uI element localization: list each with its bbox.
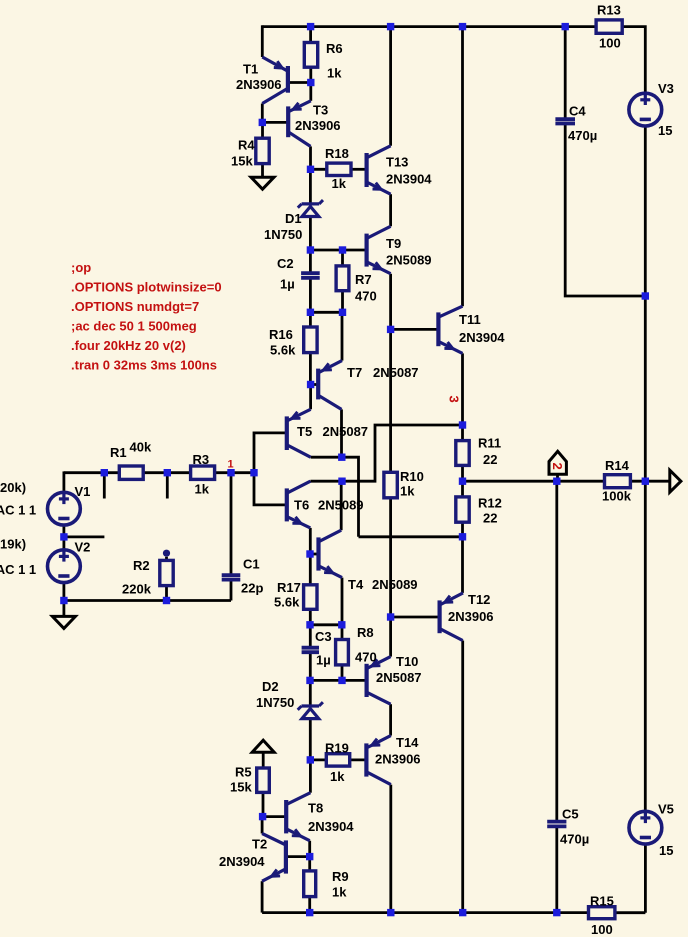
svg-text:1k: 1k [195,482,210,497]
label T7 val [373,365,419,380]
transistor T12 [440,593,463,641]
wire T5 emitter feed [309,385,312,410]
junction node R8 top [338,621,345,628]
wire R10 bottom col [389,498,392,617]
wire C4 bottom [565,124,645,296]
wire T4 base stub [310,553,318,556]
label R3 ref [193,452,210,467]
svg-text:470: 470 [355,289,377,304]
junction node R2 bottom [163,597,170,604]
svg-text:C2: C2 [277,256,294,271]
junction node top rail / T13 [387,23,394,30]
svg-text:T6: T6 [294,498,309,513]
svg-text:1µ: 1µ [280,277,295,292]
junction node rail T14 [387,909,394,916]
junction node R1 right [164,469,171,476]
wire T2 coll up [261,817,264,834]
node 2 flag [549,451,566,474]
label R18 val [332,176,347,191]
junction node T7 base [307,381,314,388]
svg-text:2N3904: 2N3904 [459,330,505,345]
label T6 ref [294,498,309,513]
transistor T3 [288,101,311,147]
wire row R17-R8 top [310,623,342,626]
svg-text:2N3906: 2N3906 [375,752,421,767]
resistor R16 [304,327,317,353]
svg-text:100k: 100k [602,489,632,504]
label R6 val [327,66,342,81]
wire C4 top col [564,27,567,119]
wire bottom-left row [64,599,231,602]
label R4 val [231,154,253,169]
voltage source V2 [48,549,81,583]
svg-text:22p: 22p [241,581,263,596]
wire T10 emit link [389,617,392,657]
label directive tran [71,358,217,373]
resistor R17 [304,585,317,610]
label R1 ref [110,445,127,460]
label R13 ref [597,3,621,18]
wire R16 top [309,312,312,327]
svg-text:5.6k: 5.6k [274,595,300,610]
label R10 ref [400,469,424,484]
wire T3 collector down [309,146,312,169]
junction node T11 base [387,326,394,333]
wire T6 emit down [309,528,312,554]
wire input row R1-R3 [143,471,190,474]
label T5 ref [297,424,312,439]
wire R4 bottom [261,164,264,178]
label R3 val [195,482,210,497]
capacitor C2 [301,273,320,278]
junction node T8 emit-T2 base [306,853,313,860]
transistor T1 [262,57,288,104]
wire T6 base [254,473,287,505]
wire R12 bottom link [461,522,464,593]
wire R2 bottom [165,586,168,601]
wire node2 stub [556,474,559,481]
label T13 ref [386,155,408,170]
label R7 val [355,289,377,304]
wire D1 bottom [309,217,312,250]
wire T6 coll row [310,480,342,483]
svg-text:T5: T5 [297,424,312,439]
svg-text:R16: R16 [269,327,293,342]
junction node V1-V2 [60,533,67,540]
wire T12 base row [391,616,440,619]
svg-text:5.6k: 5.6k [270,343,296,358]
label V5 val [659,843,673,858]
junction node R1 left [101,469,108,476]
wire R19 right [350,759,367,762]
label C1 ref [243,557,260,572]
wire T7 emitter feed [341,312,344,360]
junction node T1 base-R6 [307,79,314,86]
wire T1 emitter feed [261,25,264,57]
transistor T6 [287,481,311,528]
label directive ac [71,319,197,334]
label V2 ref [75,540,91,555]
resistor R18 [327,163,351,175]
svg-text:1k: 1k [327,66,342,81]
label T10 val [376,670,422,685]
wire R16 bottom [309,353,312,385]
transistor T2 [262,834,286,882]
wire T10 coll link [389,704,392,735]
label R6 ref [326,41,343,56]
wire row C2-R7 [310,311,342,314]
svg-text:22: 22 [483,452,497,467]
label R9 ref [332,869,349,884]
label V3 ref [658,81,674,96]
wire R18 right [351,168,367,171]
wire bottom rail [262,911,588,914]
voltage source V1 [48,491,81,525]
wire T1 collector down [261,104,264,123]
wire V2 stub right [64,536,105,539]
label V3 val [658,123,672,138]
label C5 val [560,832,589,847]
wire D2 bottom [309,718,312,760]
label directive four [71,338,186,353]
label D1 val [264,227,302,242]
wire right col top [461,27,464,307]
wire V3-V5 col [644,481,647,811]
junction node R12 bottom [459,533,466,540]
label R19 ref [325,741,349,756]
svg-text:1k: 1k [332,176,347,191]
wire input row left [64,471,119,474]
svg-text:2: 2 [550,463,565,470]
svg-text:100: 100 [599,36,621,51]
svg-text:R3: R3 [193,452,210,467]
R2 open terminal dot [163,550,170,557]
capacitor C1 [222,575,241,579]
junction node 2 junction [553,478,560,485]
svg-text:T11: T11 [459,312,481,327]
wire T13 coll rail [389,27,392,146]
junction node T4 base [306,550,313,557]
wire T4 emit down [341,578,344,625]
label C5 ref [562,807,579,822]
label T14 val [375,752,421,767]
label R11 ref [478,436,501,451]
svg-text:.OPTIONS plotwinsize=0: .OPTIONS plotwinsize=0 [71,280,222,295]
label T2 val [219,854,265,869]
wire T7 collector down [340,409,343,457]
wire V1-V2 [63,525,66,550]
label R16 ref [269,327,293,342]
resistor R9 [304,871,316,897]
wire input row R3 to node1 [215,471,254,474]
svg-text:;ac dec 50 1 500meg: ;ac dec 50 1 500meg [71,319,197,334]
svg-text:1k: 1k [332,885,347,900]
resistor R7 [336,266,349,291]
wire T2 base row [286,855,310,858]
svg-text:T7: T7 [347,365,362,380]
ground below R4 [251,177,274,189]
svg-text:R9: R9 [332,869,349,884]
voltage source V5 [629,810,662,844]
junction node R8 bottom [338,677,345,684]
label T1 val [236,77,282,92]
label T4 val [372,577,418,592]
label V1 ref [75,484,91,499]
label T6 val [318,498,364,513]
svg-text:470µ: 470µ [560,832,589,847]
label R15 val [591,922,613,937]
label T9 val [386,253,432,268]
svg-text:D1: D1 [285,211,302,226]
transistor T8 [286,793,310,841]
resistor R15 [589,907,615,919]
svg-text:T14: T14 [396,735,419,750]
junction node bottom-left [60,597,67,604]
wire T12 coll down [461,641,464,913]
label R18 ref [325,146,349,161]
wire R8 bottom stub [341,665,344,681]
label T3 ref [313,103,328,118]
wire T11 emit down [461,353,464,440]
junction node R5-T8 base [259,813,266,820]
junction node T6 coll [338,478,345,485]
junction node D1-C2 [307,246,314,253]
label R5 val [230,780,252,795]
wire R2 stub [165,557,168,561]
wire R7 top stub [341,250,344,266]
label R16 val [270,343,296,358]
label C2 val [280,277,295,292]
label R17 ref [277,580,301,595]
svg-text:R8: R8 [357,625,374,640]
svg-text:2N5089: 2N5089 [372,577,418,592]
svg-text:2N3904: 2N3904 [308,819,354,834]
svg-text:2N5089: 2N5089 [386,253,432,268]
svg-text:R10: R10 [400,469,424,484]
wire T8 coll up [309,760,312,793]
wire C2 bottom [309,279,312,312]
transistor T9 [367,226,391,273]
svg-text:R5: R5 [235,765,252,780]
output arrow [670,470,681,492]
label V5 ref [658,802,674,817]
svg-text:T3: T3 [313,103,328,118]
svg-text:V2: V2 [75,540,91,555]
svg-text:3: 3 [447,396,462,403]
wire T11 base row [391,328,439,331]
wire T1 base to R6 node [288,81,311,84]
wire V1 top feed [63,471,66,492]
diode D2 [298,702,323,718]
transistor T11 [438,306,462,353]
wire V2 bottom [63,582,66,600]
wire V5 bottom [644,844,647,913]
svg-text:C4: C4 [569,104,586,119]
label C2 ref [277,256,294,271]
wire R17 top [309,554,312,585]
junction node top rail / R6 [307,23,314,30]
label T1 ref [243,62,258,77]
resistor R14 [605,475,631,488]
label V2 note2 [0,562,36,577]
svg-text:T8: T8 [308,801,323,816]
junction node T7 coll row [338,454,345,461]
wire row T5 coll [311,457,359,537]
wire C1 top [230,473,233,575]
label T5 val [323,424,369,439]
svg-text:15: 15 [658,123,672,138]
label R9 val [332,885,347,900]
resistor R2 [160,560,173,585]
wire R8 top stub [341,625,344,640]
wire T14 emit down [389,785,392,913]
junction node output [459,478,466,485]
svg-text:R15: R15 [590,894,614,909]
resistor R6 [304,43,317,68]
wire R5 bottom [262,792,265,816]
label T3 val [295,118,341,133]
label T12 val [448,609,494,624]
ground above R5 (up) [252,740,274,752]
wire T2 emit down [261,881,264,912]
svg-text:.OPTIONS numdgt=7: .OPTIONS numdgt=7 [71,299,199,314]
transistor T5 [287,409,311,457]
label T11 ref [459,312,481,327]
wire T8 base [263,815,286,818]
svg-text:2N3904: 2N3904 [219,854,265,869]
resistor R1 [119,466,143,479]
wire R14 right [630,480,669,483]
svg-text:T10: T10 [396,654,418,669]
wire top rail [262,25,596,28]
label T13 val [386,172,432,187]
wire output row [463,480,605,483]
svg-text:R19: R19 [325,741,349,756]
label T4 ref [348,577,364,592]
svg-text:2N3906: 2N3906 [295,118,341,133]
svg-text:T12: T12 [468,592,490,607]
junction node input 1 [250,469,257,476]
label D1 ref [285,211,302,226]
label R4 ref [238,138,255,153]
svg-text:R7: R7 [355,272,372,287]
wire T3 emitter stub [309,83,312,101]
svg-text:R18: R18 [325,146,349,161]
junction node R17-C3 [306,621,313,628]
svg-text:R2: R2 [133,558,150,573]
label directive options2 [71,299,199,314]
label C3 ref [315,629,332,644]
resistor R3 [191,466,215,479]
wire T7 base stub [311,383,318,386]
svg-text:AC 1 1: AC 1 1 [0,503,36,518]
wire T5 base [254,433,287,473]
label V2 note1 [0,537,26,552]
svg-text:220k: 220k [122,582,152,597]
svg-text:;op: ;op [71,260,91,275]
svg-text:R4: R4 [238,138,255,153]
label T7 ref [347,365,362,380]
label T10 ref [396,654,418,669]
svg-text:1k: 1k [330,769,345,784]
label node label 2 [550,463,565,470]
svg-text:40k: 40k [130,440,152,455]
label V1 note1 [0,480,26,495]
junction node R7 bottom [339,309,346,316]
transistor T4 [319,530,343,577]
resistor R4 [256,138,269,163]
junction node T3 base-R4 [259,119,266,126]
wire D2 top [309,680,312,704]
svg-text:15: 15 [659,843,673,858]
junction node C1 top [227,469,234,476]
svg-text:2N3906: 2N3906 [448,609,494,624]
wire C5 bottom [555,827,558,912]
wire stub A [103,476,106,499]
label R13 val [599,36,621,51]
svg-text:AC 1 1: AC 1 1 [0,562,36,577]
label directive op [71,260,91,275]
junction node rail right col [459,909,466,916]
svg-text:2N5089: 2N5089 [318,498,364,513]
svg-text:.four 20kHz 20 v(2): .four 20kHz 20 v(2) [71,338,186,353]
label R2 val [122,582,152,597]
label R15 ref [590,894,614,909]
junction node C4-V3 [642,292,649,299]
label T14 ref [396,735,419,750]
label node label 1 [228,459,234,471]
label R1 val [130,440,152,455]
resistor R10 [384,472,397,498]
svg-text:R14: R14 [605,458,630,473]
junction node top rail / right col [459,23,466,30]
svg-text:(19k): (19k) [0,537,26,552]
svg-text:1µ: 1µ [316,653,331,668]
diode D1 [298,200,323,216]
svg-text:D2: D2 [262,679,279,694]
wire C1 bottom [230,580,233,601]
label T8 ref [308,801,323,816]
label node label 3 [447,396,462,403]
svg-text:2N3904: 2N3904 [386,172,432,187]
wire R7 bottom stub [341,291,344,313]
label T9 ref [386,236,401,251]
label R7 ref [355,272,372,287]
label C3 val [316,653,331,668]
junction node top rail / C4 [562,23,569,30]
wire row mid to R12 bottom [359,535,463,538]
transistor T13 [367,146,391,194]
svg-text:T2: T2 [252,837,267,852]
resistor R13 [596,20,622,33]
label T12 ref [468,592,490,607]
svg-text:22: 22 [483,511,497,526]
label T8 val [308,819,354,834]
svg-text:1: 1 [228,459,234,471]
wire R9 top stub [308,857,311,871]
svg-text:C5: C5 [562,807,579,822]
svg-text:R17: R17 [277,580,301,595]
label D2 val [256,695,294,710]
resistor R5 [257,768,270,792]
label R10 val [400,484,415,499]
ground below V2 [52,616,75,628]
svg-text:T4: T4 [348,577,364,592]
junction node R14 right [642,478,649,485]
label R8 ref [357,625,374,640]
svg-text:V5: V5 [658,802,674,817]
svg-text:T9: T9 [386,236,401,251]
